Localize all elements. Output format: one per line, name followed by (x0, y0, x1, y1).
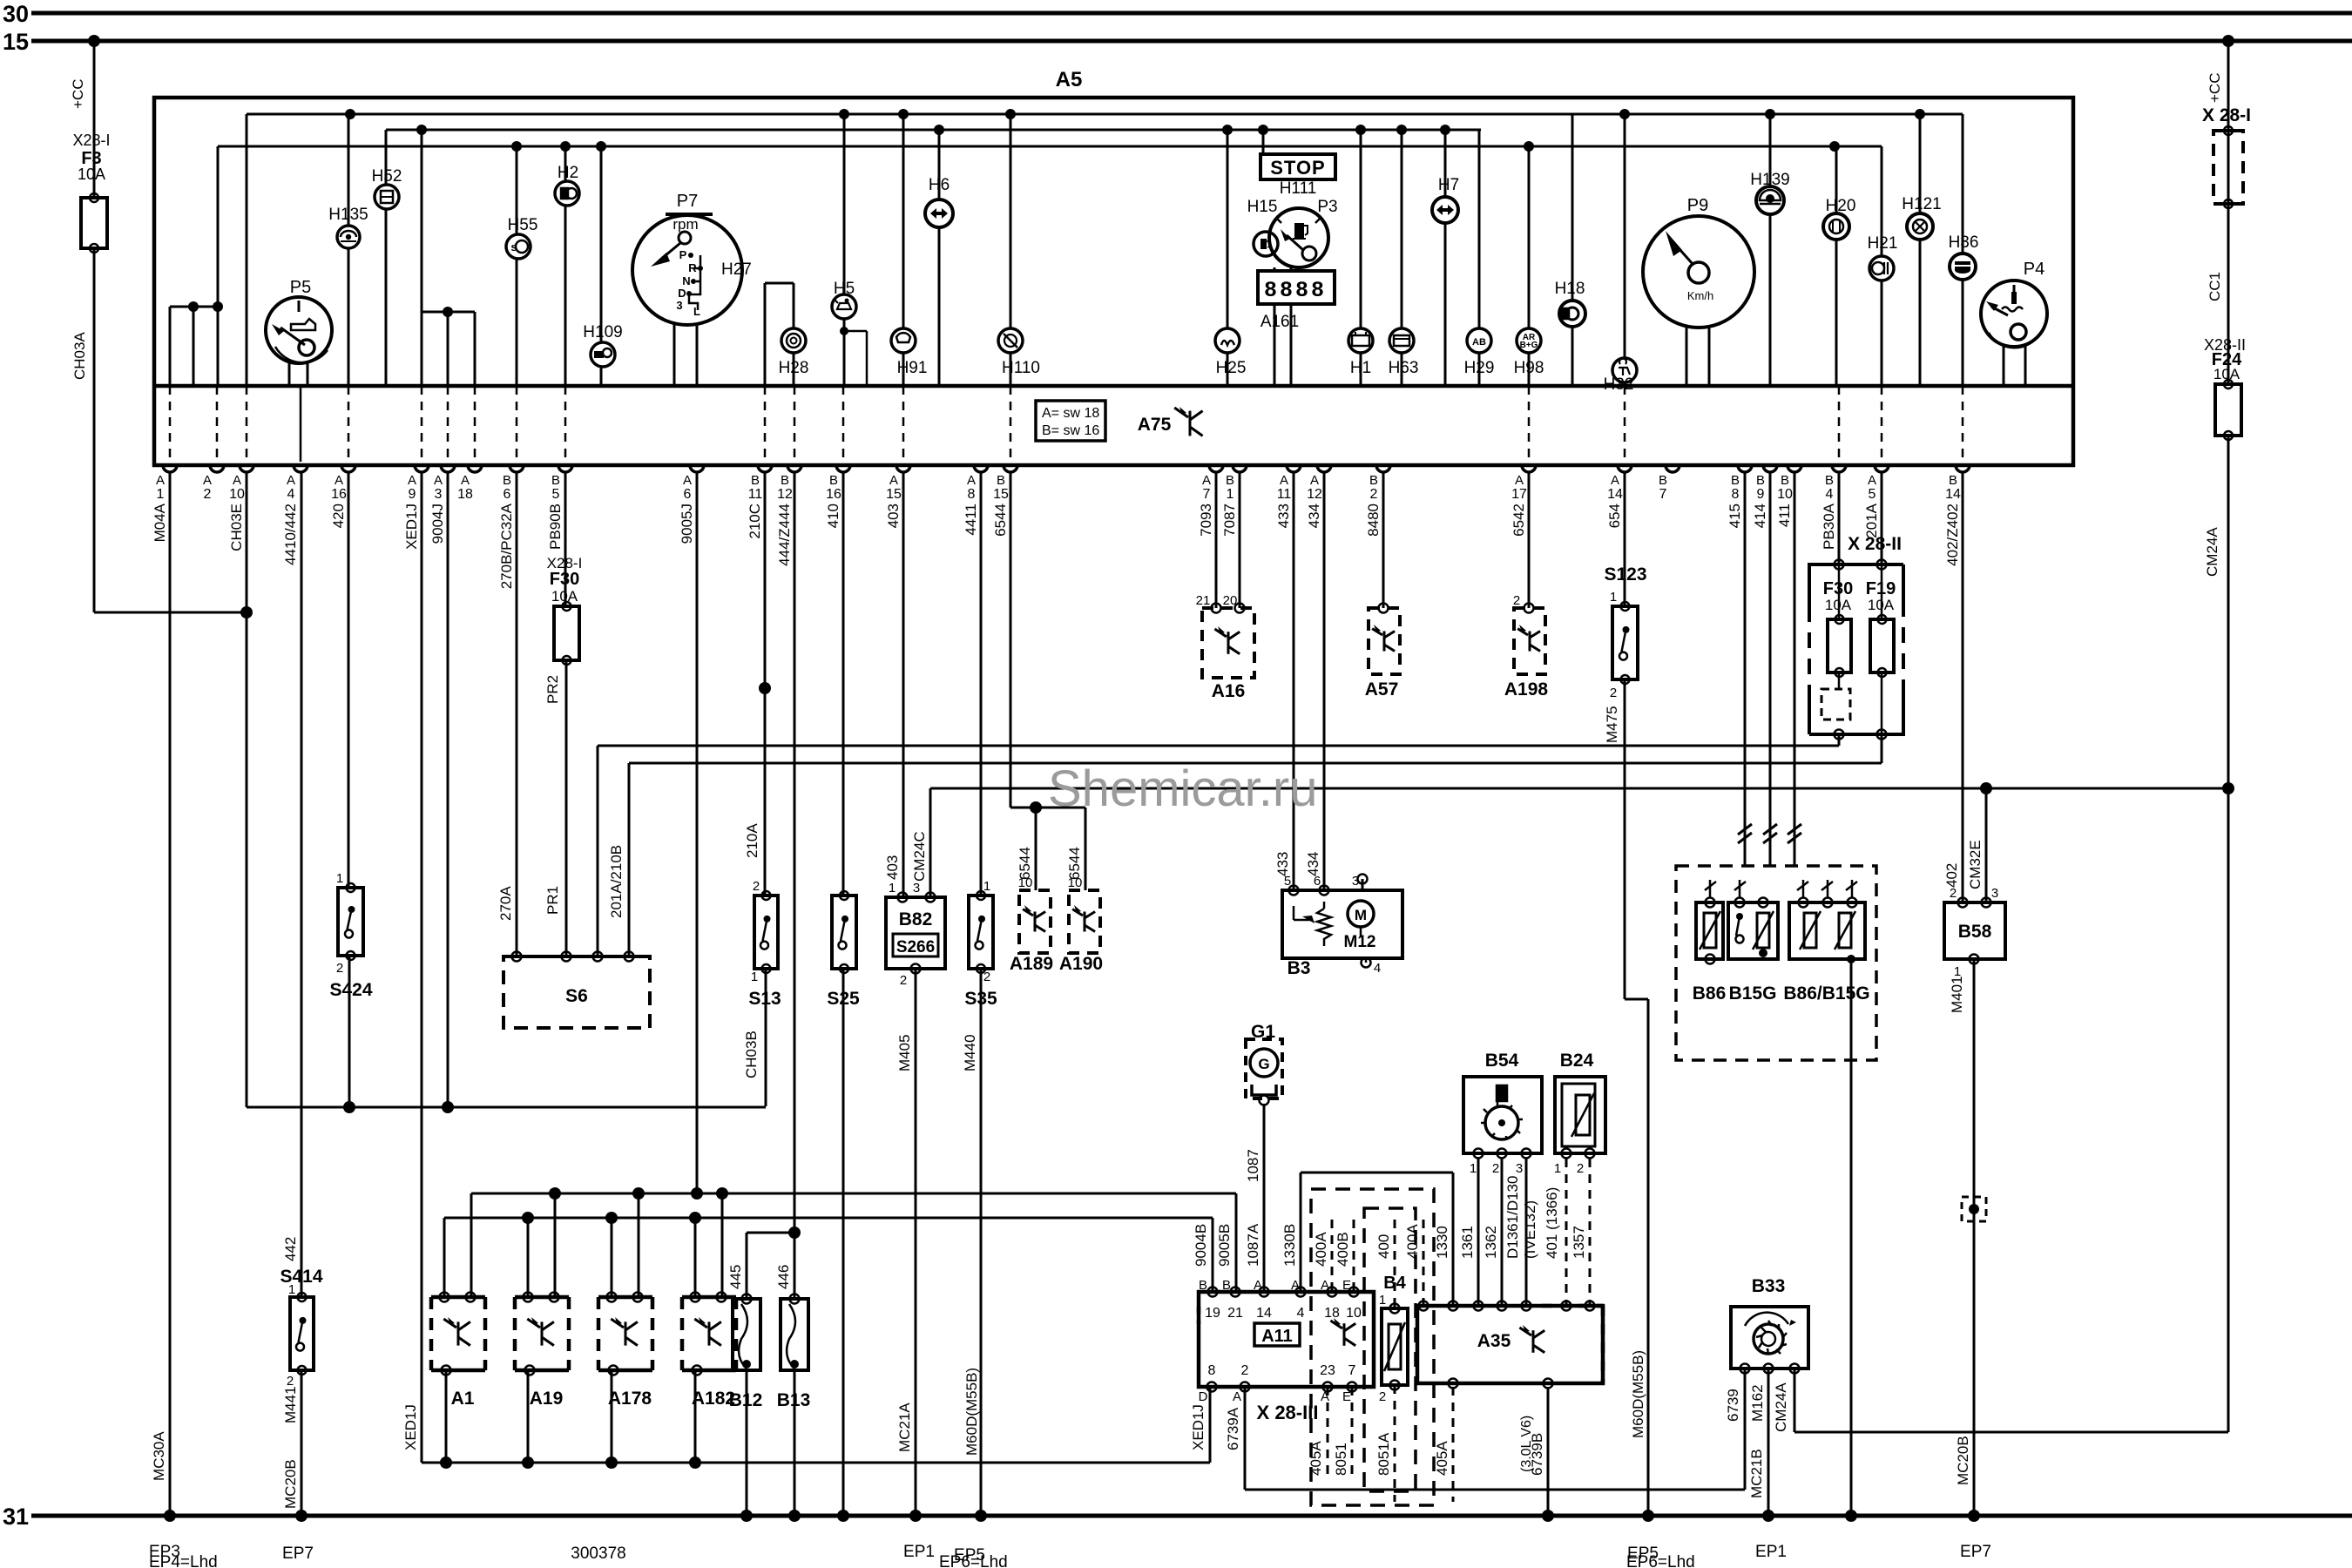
wire A178 down (611, 1370, 613, 1463)
legend box sw18 sw16 (1036, 401, 1105, 441)
svg-text:A: A (408, 473, 416, 488)
wire 8051A dashed below B4 (1394, 1385, 1396, 1502)
sensor B86/B15G (1789, 902, 1865, 959)
svg-text:7: 7 (1348, 1363, 1356, 1378)
svg-text:270A: 270A (497, 886, 514, 921)
bus 15 wire (31, 39, 2352, 44)
svg-text:1362: 1362 (1483, 1226, 1499, 1259)
svg-text:6739: 6739 (1725, 1389, 1741, 1422)
svg-text:3: 3 (1991, 886, 1998, 901)
svg-text:D: D (1199, 1389, 1208, 1404)
wire CC1 (2227, 204, 2230, 384)
pin B9 of A5 (1763, 465, 1777, 472)
riser 9004B to A11 pin 19 (1212, 1218, 1214, 1292)
svg-text:414: 414 (1752, 504, 1768, 528)
svg-text:PR2: PR2 (544, 675, 561, 704)
wire 7087 to A16 (1239, 472, 1241, 608)
svg-text:400A: 400A (1313, 1232, 1329, 1267)
svg-text:P9: P9 (1687, 196, 1708, 215)
svg-text:(IVE132): (IVE132) (1522, 1200, 1538, 1259)
svg-text:2: 2 (1950, 886, 1957, 901)
svg-text:H15: H15 (1247, 198, 1278, 216)
svg-text:A: A (287, 473, 295, 488)
svg-text:P: P (679, 248, 687, 261)
wire 411 down (1794, 472, 1796, 866)
lamp module A19 (515, 1295, 569, 1300)
wires A161 down (1274, 304, 1276, 386)
wire CM24C riser (929, 788, 932, 897)
P5 legs (288, 362, 291, 386)
pin A5 of A5 (1875, 465, 1889, 472)
svg-text:B: B (1659, 473, 1667, 488)
svg-text:18: 18 (1324, 1306, 1340, 1321)
svg-text:402: 402 (1943, 863, 1960, 888)
svg-text:P5: P5 (290, 278, 311, 297)
pin A14 of A5 (1618, 465, 1632, 472)
svg-text:S123: S123 (1604, 564, 1646, 585)
fuse F3 (81, 198, 107, 248)
wire H29 up (1478, 130, 1481, 328)
svg-text:G: G (1258, 1056, 1269, 1072)
sensor B15G (1728, 902, 1778, 959)
svg-text:1: 1 (157, 487, 165, 502)
wire 4410/442 to S414 (301, 472, 303, 1297)
svg-text:H110: H110 (1002, 359, 1040, 377)
wire M401 / MC20B (1973, 959, 1976, 1516)
svg-text:H121: H121 (1902, 195, 1941, 213)
svg-text:9: 9 (409, 487, 416, 502)
svg-text:1: 1 (751, 970, 758, 984)
svg-text:MC30A: MC30A (151, 1431, 167, 1481)
svg-text:M162: M162 (1749, 1384, 1766, 1422)
svg-text:21: 21 (1227, 1306, 1243, 1321)
pin A1 of A5 (163, 465, 177, 472)
svg-text:X 28-III: X 28-III (1257, 1402, 1319, 1423)
svg-text:2: 2 (1492, 1161, 1499, 1176)
svg-text:4: 4 (287, 487, 295, 502)
svg-text:5: 5 (552, 487, 560, 502)
svg-text:B86/B15G: B86/B15G (1783, 983, 1869, 1004)
svg-text:B82: B82 (899, 909, 933, 929)
svg-text:3: 3 (435, 487, 443, 502)
buzzer B12 (733, 1299, 760, 1370)
svg-text:B: B (781, 473, 789, 488)
wire 402/Z402 to B58 (1962, 472, 1964, 902)
svg-text:B: B (1226, 473, 1234, 488)
wire 7093 to A16 (1215, 472, 1218, 608)
svg-text:CC1: CC1 (2207, 272, 2223, 301)
svg-text:10A: 10A (78, 166, 105, 183)
svg-text:MC21A: MC21A (896, 1402, 913, 1452)
link line right pins (471, 1193, 1236, 1195)
telltale H91 (891, 328, 916, 353)
wire 654 to S123 (1624, 472, 1626, 606)
svg-text:654: 654 (1606, 504, 1623, 528)
svg-text:15: 15 (3, 29, 29, 55)
wire 6542 to A198 (1528, 472, 1531, 608)
svg-text:S414: S414 (280, 1267, 322, 1287)
telltale H25 (1215, 328, 1240, 353)
svg-text:8: 8 (1732, 487, 1740, 502)
svg-text:PB90B: PB90B (547, 504, 564, 550)
svg-text:A: A (1202, 473, 1211, 488)
P4 legs (2003, 346, 2005, 386)
svg-text:CH03B: CH03B (743, 1031, 760, 1078)
svg-text:B: B (1199, 1278, 1207, 1293)
svg-text:A178: A178 (608, 1389, 652, 1409)
buzzer B13 (781, 1299, 808, 1370)
wire CH03A (93, 248, 96, 612)
wire H91 up (902, 114, 905, 328)
svg-text:434: 434 (1306, 504, 1322, 528)
svg-text:CH03A: CH03A (71, 332, 88, 380)
svg-text:10: 10 (229, 487, 245, 502)
svg-text:15: 15 (993, 487, 1009, 502)
svg-text:S424: S424 (329, 980, 372, 1000)
svg-text:A189: A189 (1010, 954, 1053, 974)
svg-text:405A: 405A (1434, 1441, 1450, 1476)
svg-text:M: M (1355, 907, 1367, 923)
svg-text:H7: H7 (1438, 176, 1459, 194)
long feeder line H1f (598, 745, 1839, 747)
svg-text:2: 2 (900, 973, 907, 988)
wire CH03E down (246, 472, 248, 1107)
link line left pins (444, 1217, 1213, 1220)
wire M405 / MC21A (915, 969, 917, 1516)
svg-text:2: 2 (1379, 1389, 1386, 1404)
svg-text:A11: A11 (1261, 1327, 1293, 1346)
splice symbol on MC20B (1962, 1197, 1986, 1221)
svg-text:P7: P7 (677, 192, 698, 211)
svg-text:B: B (1731, 473, 1740, 488)
lamp module A1 (431, 1295, 485, 1300)
svg-text:1: 1 (1554, 1161, 1561, 1176)
lamp module A182 (682, 1295, 736, 1300)
svg-text:+CC: +CC (70, 79, 86, 109)
svg-text:16: 16 (331, 487, 347, 502)
svg-text:210A: 210A (744, 823, 760, 858)
svg-text:A: A (1868, 473, 1876, 488)
pin B15 of A5 (1004, 465, 1017, 472)
telltale H1 (1348, 328, 1373, 353)
wire CM24A bottom corner to B33 (1794, 1431, 2228, 1434)
svg-text:B= sw 16: B= sw 16 (1042, 423, 1099, 438)
svg-text:2: 2 (1370, 487, 1378, 502)
svg-text:7: 7 (1659, 487, 1667, 502)
svg-text:CM24C: CM24C (911, 831, 928, 882)
telltale H28 (781, 328, 806, 353)
svg-text:445: 445 (727, 1265, 744, 1289)
svg-text:4410/442: 4410/442 (282, 504, 299, 565)
display A161 (1258, 271, 1335, 304)
svg-text:X28-I: X28-I (72, 132, 110, 149)
svg-text:9005J: 9005J (679, 504, 695, 544)
svg-text:6739A: 6739A (1225, 1407, 1241, 1450)
svg-text:A: A (233, 473, 241, 488)
svg-text:EP4=Lhd: EP4=Lhd (149, 1553, 218, 1568)
svg-text:B15G: B15G (1729, 983, 1777, 1004)
svg-text:400B: 400B (1335, 1232, 1351, 1267)
svg-text:H63: H63 (1389, 359, 1419, 377)
svg-text:B: B (1949, 473, 1957, 488)
svg-text:415: 415 (1727, 504, 1743, 528)
pin B7 of A5 (1666, 465, 1680, 472)
wire 9004J down (447, 472, 449, 1107)
feeder L1 inside A5 (247, 113, 1963, 116)
wire bus15 down right (2227, 41, 2230, 144)
svg-text:270B/PC32A: 270B/PC32A (498, 503, 515, 589)
svg-text:PB30A: PB30A (1821, 503, 1837, 550)
svg-text:14: 14 (1607, 487, 1623, 502)
wire 403 to B82 (902, 472, 905, 896)
svg-text:3: 3 (676, 299, 682, 312)
wire H110 up (1010, 114, 1012, 328)
svg-text:B: B (1756, 473, 1765, 488)
svg-text:H29: H29 (1464, 359, 1495, 377)
pin B11 of A5 (758, 465, 772, 472)
pin A18 of A5 (468, 465, 482, 472)
wire 434 to B3 (1323, 472, 1326, 890)
pin A12 of A5 (1317, 465, 1331, 472)
svg-text:6: 6 (684, 487, 692, 502)
svg-text:2: 2 (983, 970, 990, 984)
svg-text:B: B (751, 473, 760, 488)
svg-text:B58: B58 (1958, 922, 1992, 942)
long feeder line H3f (930, 787, 2228, 790)
svg-text:B3: B3 (1288, 958, 1311, 978)
wire 4411 to S35 (980, 472, 983, 896)
svg-text:4: 4 (1374, 961, 1381, 976)
svg-text:6: 6 (1314, 874, 1321, 889)
wire 270B/PC32A to S6 (516, 472, 518, 956)
wire A1 down (445, 1370, 448, 1463)
junction on bus 15 right (2222, 35, 2234, 47)
svg-text:A: A (889, 473, 898, 488)
svg-text:N: N (682, 274, 690, 287)
pin A8 of A5 (974, 465, 988, 472)
svg-text:H1: H1 (1350, 359, 1371, 377)
lamp module A198 (1514, 608, 1545, 674)
svg-text:F30: F30 (550, 570, 579, 589)
svg-text:A= sw 18: A= sw 18 (1042, 406, 1099, 421)
svg-text:9005B: 9005B (1216, 1224, 1233, 1267)
svg-text:10: 10 (1018, 875, 1033, 890)
wire CM24A (2227, 436, 2230, 1432)
wire 8480 to A57 (1382, 472, 1385, 608)
svg-text:1: 1 (336, 871, 343, 886)
telltale H63 (1389, 328, 1414, 353)
pin A3 of A5 (441, 465, 455, 472)
svg-text:M60D(M55B): M60D(M55B) (963, 1368, 980, 1456)
svg-text:A: A (1254, 1278, 1262, 1293)
svg-text:15: 15 (886, 487, 902, 502)
svg-text:H32: H32 (1604, 375, 1634, 394)
svg-text:M441: M441 (282, 1386, 299, 1423)
svg-text:210C: 210C (747, 504, 763, 539)
svg-text:MC20B: MC20B (1955, 1436, 1971, 1485)
riser 9005B to A11 pin 21 (1235, 1193, 1238, 1292)
svg-text:400A: 400A (1404, 1224, 1421, 1259)
fuse F24 (2215, 384, 2241, 436)
wire 400A dashed to A11 pin18 (1331, 1220, 1334, 1292)
wire 1357 dashed B24 to A35 (1589, 1159, 1592, 1306)
svg-text:2: 2 (1513, 593, 1520, 608)
svg-text:11: 11 (748, 487, 763, 502)
svg-text:H111: H111 (1280, 179, 1317, 198)
bridge wire 210C to H28 (765, 282, 794, 285)
svg-text:H91: H91 (897, 359, 928, 377)
svg-text:4: 4 (1297, 1306, 1305, 1321)
svg-text:D1361/D130: D1361/D130 (1504, 1176, 1521, 1259)
bridge wire left pins (170, 306, 218, 308)
svg-text:401 (1366): 401 (1366) (1544, 1187, 1560, 1259)
wire CH03B (765, 969, 767, 1106)
wire M440 / M60D (980, 969, 983, 1516)
connector S6 (504, 956, 650, 1028)
wire 201A/210B to feeder H2 (628, 763, 631, 956)
pin B5 of A5 (558, 465, 572, 472)
svg-text:B: B (829, 473, 838, 488)
svg-text:16: 16 (826, 487, 841, 502)
svg-text:403: 403 (885, 504, 902, 528)
pin B12 of A5 (787, 465, 801, 472)
svg-text:21: 21 (1196, 593, 1211, 608)
svg-text:A190: A190 (1059, 954, 1103, 974)
svg-text:rpm: rpm (672, 216, 698, 233)
svg-text:STOP: STOP (1270, 157, 1326, 179)
pin B8 of A5 (1738, 465, 1752, 472)
wire 1330B link to A35 (1300, 1173, 1302, 1292)
wire 6739B below A35 (1547, 1387, 1550, 1516)
svg-text:B: B (1781, 473, 1789, 488)
svg-text:B: B (997, 473, 1005, 488)
svg-text:1330: 1330 (1434, 1226, 1450, 1259)
wire 420 down to S424 (348, 472, 350, 888)
svg-text:EP1: EP1 (1755, 1543, 1787, 1561)
pin A17 of A5 (1522, 465, 1536, 472)
svg-text:2: 2 (1241, 1363, 1249, 1378)
svg-text:31: 31 (3, 1504, 29, 1530)
wire H1 up (1360, 130, 1362, 328)
svg-text:XED1J: XED1J (402, 1404, 419, 1450)
pin B6 of A5 (510, 465, 524, 472)
svg-text:10: 10 (1777, 487, 1793, 502)
P9 legs (1686, 327, 1688, 386)
svg-text:2: 2 (204, 487, 212, 502)
STOP warning H111 (1260, 154, 1335, 179)
svg-text:H27: H27 (721, 260, 752, 279)
svg-text:P4: P4 (2024, 260, 2044, 279)
branch to B12 (747, 1232, 794, 1234)
wire H63 up (1401, 130, 1403, 328)
svg-text:A198: A198 (1504, 679, 1549, 700)
bridge wire A9 A3 A18 (422, 311, 475, 314)
svg-text:+CC: +CC (2207, 73, 2223, 103)
wire 415 down (1744, 472, 1747, 866)
wire M60D right (1647, 999, 1650, 1516)
svg-text:2: 2 (1577, 1161, 1584, 1176)
svg-text:2: 2 (1610, 686, 1617, 700)
wire 8051 dashed from A11 pin7 (1351, 1387, 1354, 1481)
wire 210C / 210A to S13 (764, 472, 767, 896)
svg-text:10: 10 (1346, 1306, 1362, 1321)
wire M04A / MC30A (169, 472, 172, 1516)
svg-text:8480: 8480 (1365, 504, 1382, 537)
wire 1087 to A11 (1263, 1104, 1266, 1292)
svg-text:B+G: B+G (1520, 341, 1538, 350)
svg-text:300378: 300378 (571, 1544, 625, 1563)
svg-text:1361: 1361 (1459, 1226, 1476, 1259)
svg-text:s: s (510, 240, 517, 253)
svg-text:M405: M405 (896, 1034, 913, 1071)
svg-text:EP6=Lhd: EP6=Lhd (939, 1553, 1008, 1568)
svg-text:7093: 7093 (1198, 504, 1214, 537)
wire 405A dashed below A35 (1452, 1387, 1455, 1502)
P7 legs (673, 323, 676, 386)
svg-text:CM24A: CM24A (1773, 1382, 1789, 1432)
svg-text:A: A (335, 473, 343, 488)
wire B12 to bus 31 (746, 1370, 748, 1516)
outer dashed box engine variants (1311, 1189, 1434, 1505)
svg-text:MC21B: MC21B (1748, 1449, 1765, 1498)
pin A11 of A5 (1287, 465, 1301, 472)
wire 400 dashed above B4 (1394, 1220, 1396, 1308)
svg-text:A: A (203, 473, 212, 488)
svg-text:9: 9 (1757, 487, 1765, 502)
svg-text:D: D (678, 287, 686, 300)
wire 6739 to A11 link (1744, 1369, 1747, 1490)
svg-text:3: 3 (1516, 1161, 1523, 1176)
svg-text:AB: AB (1472, 337, 1486, 348)
svg-text:M04A: M04A (152, 503, 168, 542)
wire PB30A to X28-II (1838, 472, 1841, 564)
svg-text:CM24A: CM24A (2204, 527, 2220, 577)
bus 30 wire (31, 11, 2352, 16)
svg-text:2: 2 (336, 961, 343, 976)
junction on bus 15 left (88, 35, 100, 47)
svg-text:A: A (1310, 473, 1319, 488)
svg-text:CM32E: CM32E (1967, 840, 1984, 889)
svg-text:12: 12 (1307, 487, 1322, 502)
svg-text:12: 12 (777, 487, 793, 502)
svg-text:434: 434 (1305, 852, 1321, 876)
wire M162 to bus 31 (1767, 1369, 1770, 1516)
pin A2 of A5 (210, 465, 224, 472)
svg-text:CH03E: CH03E (228, 504, 245, 551)
svg-text:9004B: 9004B (1193, 1224, 1209, 1267)
svg-text:1: 1 (1610, 590, 1617, 605)
svg-text:Km/h: Km/h (1687, 289, 1713, 302)
svg-text:A: A (434, 473, 443, 488)
telltale H29 (1467, 328, 1491, 353)
svg-text:B: B (1369, 473, 1378, 488)
svg-text:4411: 4411 (963, 504, 979, 536)
svg-text:9004J: 9004J (429, 504, 446, 544)
pin A4 of A5 (294, 465, 308, 472)
wire A182 down (694, 1370, 697, 1463)
svg-text:H28: H28 (779, 359, 809, 377)
svg-text:18: 18 (457, 487, 473, 502)
svg-text:410: 410 (825, 504, 841, 528)
wire B13 to bus 31 (794, 1370, 796, 1516)
svg-text:Shemicar.ru: Shemicar.ru (1048, 760, 1317, 817)
junction on wire CH03E (240, 606, 253, 618)
lamp module A178 (598, 1295, 652, 1300)
svg-text:A16: A16 (1212, 681, 1246, 701)
junction CM24A with feeder H3 (2222, 782, 2234, 794)
pin B16 of A5 (836, 465, 850, 472)
fuse F30 (554, 606, 579, 660)
